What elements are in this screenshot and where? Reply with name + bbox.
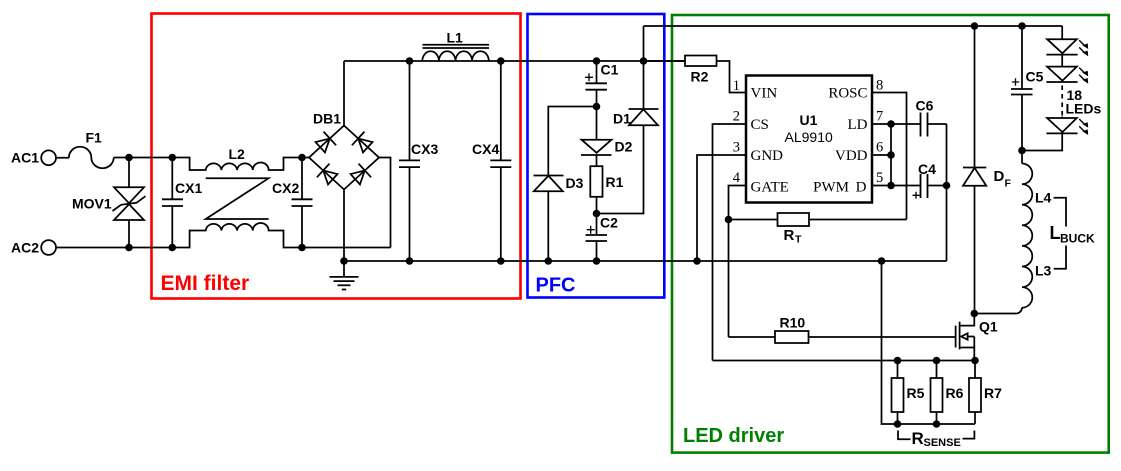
top rail wire bridge to PFC xyxy=(344,60,685,62)
svg-text:R: R xyxy=(784,227,795,244)
common-mode choke L2 bottom winding xyxy=(172,223,302,248)
svg-text:L2: L2 xyxy=(229,146,246,162)
inductor L1 xyxy=(422,45,489,61)
svg-text:GND: GND xyxy=(751,148,784,164)
svg-text:R10: R10 xyxy=(780,315,806,331)
pin 5 PWM D wire xyxy=(872,185,921,187)
svg-text:1: 1 xyxy=(733,78,740,94)
svg-text:D3: D3 xyxy=(566,175,584,191)
svg-text:F1: F1 xyxy=(86,130,103,146)
transistor Q1 MOSFET xyxy=(956,314,975,361)
junction D1 top rail xyxy=(640,57,648,65)
resistor R2 xyxy=(644,56,747,93)
capacitor CX4 xyxy=(490,61,511,261)
SECTION BOXES xyxy=(152,14,1109,453)
svg-text:5: 5 xyxy=(876,170,883,186)
LED D-led3 xyxy=(1046,117,1088,136)
junction D3 bottom xyxy=(545,257,553,265)
diode D1 xyxy=(629,26,659,125)
wire C6/C4 right side to ground rail xyxy=(946,124,948,261)
svg-text:T: T xyxy=(795,234,802,246)
svg-text:SENSE: SENSE xyxy=(924,437,961,449)
junction R1 C2 D1 node xyxy=(593,210,601,218)
svg-text:R2: R2 xyxy=(691,69,709,85)
svg-text:R: R xyxy=(912,429,924,448)
junction C1 D2 D3 node xyxy=(593,103,601,111)
terminal AC2 xyxy=(41,240,56,255)
wire AC2 rail CX2 to bridge right xyxy=(302,247,391,249)
junction DF top rail xyxy=(971,22,979,30)
fuse F1 xyxy=(69,147,114,168)
svg-text:AC1: AC1 xyxy=(11,150,39,166)
junction ground bridge xyxy=(340,257,348,265)
svg-text:Q1: Q1 xyxy=(979,319,998,335)
wire sense resistors bottom to ground rail xyxy=(882,261,976,424)
LED D-led2 xyxy=(1046,55,1088,84)
wire bridge bottom to ground rail xyxy=(343,190,345,262)
pin 7 LD wire xyxy=(872,123,921,125)
dashed wire LED string continuation xyxy=(1061,86,1063,117)
svg-text:U1: U1 xyxy=(800,112,818,128)
junction CX4 top xyxy=(497,57,505,65)
svg-text:LED driver: LED driver xyxy=(683,425,784,447)
junction Q1 drain DF L3 xyxy=(971,310,979,318)
pin 6 VDD wire xyxy=(872,154,891,156)
junction C4 right xyxy=(943,182,951,190)
pin 4 GATE wire xyxy=(729,186,747,338)
capacitor CX1 xyxy=(162,158,183,248)
junction CX1 top xyxy=(169,154,177,162)
svg-text:CX3: CX3 xyxy=(411,141,438,157)
svg-text:R5: R5 xyxy=(907,385,925,401)
terminal AC1 xyxy=(41,150,56,165)
svg-text:CS: CS xyxy=(751,117,769,133)
LBUCK bracket xyxy=(1054,198,1066,269)
svg-text:R6: R6 xyxy=(946,385,964,401)
wire bridge left corner to CX2 node xyxy=(302,157,309,159)
capacitor C5 polarized xyxy=(1011,26,1033,151)
junction pin6 VDD xyxy=(887,151,895,159)
junction R5 bottom xyxy=(894,420,902,428)
varistor MOV1 xyxy=(113,158,146,248)
wire bridge right corner down to AC2 rail xyxy=(379,158,391,248)
capacitor CX3 xyxy=(399,61,420,261)
resistor R6 xyxy=(931,361,943,425)
junction Q1 source sense xyxy=(971,357,979,365)
svg-text:CX1: CX1 xyxy=(175,180,202,196)
junction R5 top xyxy=(894,357,902,365)
svg-text:ROSC: ROSC xyxy=(828,86,867,102)
pins 7-6-5 bus wire xyxy=(890,124,892,186)
svg-text:EMI filter: EMI filter xyxy=(161,272,250,295)
svg-text:C5: C5 xyxy=(1026,69,1044,85)
svg-text:D1: D1 xyxy=(613,111,631,127)
junction CX4 bottom xyxy=(497,257,505,265)
svg-text:6: 6 xyxy=(876,140,883,156)
svg-text:VDD: VDD xyxy=(835,148,868,164)
svg-text:D2: D2 xyxy=(615,139,633,155)
svg-text:F: F xyxy=(1005,178,1012,190)
svg-text:3: 3 xyxy=(733,140,740,156)
diode DF freewheeling xyxy=(963,26,986,314)
resistor R1 xyxy=(590,155,602,214)
svg-text:D: D xyxy=(994,168,1005,185)
junction RT left xyxy=(725,216,733,224)
junction pin7 LD xyxy=(887,120,895,128)
PFC box xyxy=(528,14,665,298)
junction CX3 top xyxy=(406,57,414,65)
ground rail wire xyxy=(344,260,947,262)
svg-text:C4: C4 xyxy=(918,161,936,177)
wire R1/C2 node to D1 anode xyxy=(597,125,644,213)
capacitor C1 polarized xyxy=(585,61,607,107)
junction C2 bottom xyxy=(593,257,601,265)
wire C1/D2 node to D3 xyxy=(548,107,596,176)
capacitor CX2 xyxy=(292,158,313,248)
svg-text:C2: C2 xyxy=(600,215,618,231)
junction CX2 top xyxy=(298,154,306,162)
junction C5 bottom L4 xyxy=(1018,147,1026,155)
junction C5 top rail xyxy=(1018,22,1026,30)
svg-text:GATE: GATE xyxy=(751,180,789,196)
common-mode choke L2 top winding xyxy=(172,158,302,171)
pin 3 GND wire xyxy=(697,155,746,261)
capacitor C6 xyxy=(921,113,947,137)
op-amp U1 IC body AL9910 xyxy=(746,76,872,203)
svg-text:L: L xyxy=(1050,223,1061,243)
wire bridge top to top rail xyxy=(343,61,345,126)
LED D-led1 xyxy=(1046,26,1088,56)
junction MOV1 bottom xyxy=(125,244,133,252)
LED driver box xyxy=(672,15,1109,453)
wire AC2 to CX1 node xyxy=(56,247,172,249)
junction CX2 bottom xyxy=(298,244,306,252)
svg-text:DB1: DB1 xyxy=(313,111,341,127)
top feed rail to LED string xyxy=(644,25,1063,27)
svg-text:R7: R7 xyxy=(984,385,1002,401)
svg-text:CX4: CX4 xyxy=(472,141,499,157)
svg-text:4: 4 xyxy=(733,170,741,186)
svg-text:C6: C6 xyxy=(916,98,934,114)
svg-text:L4: L4 xyxy=(1035,190,1052,206)
resistor R10 xyxy=(729,331,956,343)
diode D3 xyxy=(534,176,564,262)
inductor L4-L3 buck xyxy=(974,151,1032,314)
capacitor C4 polarized xyxy=(913,174,947,199)
EMI filter box xyxy=(152,14,521,299)
svg-text:AC2: AC2 xyxy=(11,240,39,256)
svg-text:AL9910: AL9910 xyxy=(785,129,833,145)
svg-text:PFC: PFC xyxy=(536,275,576,297)
svg-text:7: 7 xyxy=(876,109,883,125)
junction pin5 PWM D xyxy=(887,182,895,190)
wire fuse to CX1 node xyxy=(114,157,173,159)
junction GND pin rail xyxy=(693,257,701,265)
RSENSE bracket xyxy=(898,431,974,440)
junction MOV1 top xyxy=(125,154,133,162)
ground symbol xyxy=(330,261,359,290)
pin 2 CS wire xyxy=(713,124,747,361)
wire LED string bottom to C5 node xyxy=(1022,133,1062,150)
junction sense ground xyxy=(878,257,886,265)
svg-text:CX2: CX2 xyxy=(272,180,299,196)
junction CX1 bottom xyxy=(169,244,177,252)
junction R6 bottom xyxy=(933,420,941,428)
svg-text:L3: L3 xyxy=(1035,263,1052,279)
svg-text:R1: R1 xyxy=(606,174,624,190)
svg-text:PWM: PWM xyxy=(813,180,849,196)
resistor RT xyxy=(729,213,907,226)
capacitor C2 polarized xyxy=(586,214,608,262)
resistor R7 xyxy=(969,361,981,425)
svg-text:LEDs: LEDs xyxy=(1066,101,1102,117)
choke L2 core Z mark xyxy=(206,178,269,219)
junction R6 top xyxy=(933,357,941,365)
wire AC1 to fuse xyxy=(56,157,69,159)
diode D2 xyxy=(581,107,612,156)
svg-text:D: D xyxy=(856,180,867,196)
svg-text:MOV1: MOV1 xyxy=(72,196,112,212)
wire CS sense rail xyxy=(713,360,975,362)
junction CX3 bottom xyxy=(406,257,414,265)
svg-text:8: 8 xyxy=(876,78,883,94)
pin 8 ROSC wire xyxy=(872,93,907,220)
svg-text:L1: L1 xyxy=(447,30,464,46)
svg-text:LD: LD xyxy=(848,117,868,133)
junction C1 top xyxy=(593,57,601,65)
svg-text:C1: C1 xyxy=(601,62,619,78)
svg-text:BUCK: BUCK xyxy=(1060,232,1095,246)
svg-text:2: 2 xyxy=(733,109,740,125)
svg-text:VIN: VIN xyxy=(751,86,778,102)
bridge rectifier DB1 xyxy=(309,126,379,190)
resistor R5 xyxy=(892,361,904,425)
